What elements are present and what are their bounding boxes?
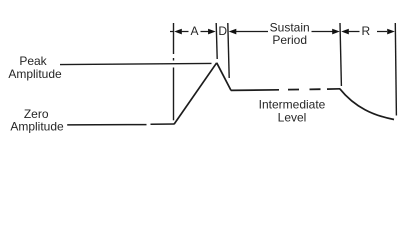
envelope sustain end segment bbox=[327, 88, 340, 90]
tick T5 release end bbox=[395, 23, 396, 116]
envelope sustain dashed segment bbox=[288, 88, 321, 90]
dimension A right line bbox=[201, 31, 209, 33]
svg-text:A: A bbox=[190, 24, 198, 38]
tick T2 attack end bbox=[216, 23, 217, 59]
svg-text:Peak: Peak bbox=[19, 54, 47, 68]
svg-text:Level: Level bbox=[278, 111, 307, 125]
zero leader right segment bbox=[151, 123, 175, 125]
dimension A left arrow bbox=[174, 29, 182, 35]
envelope decay ramp bbox=[217, 63, 231, 91]
label Zero Amplitude bbox=[10, 107, 64, 133]
dimension Sustain left line bbox=[236, 31, 269, 33]
svg-text:D: D bbox=[218, 24, 227, 38]
label Peak Amplitude bbox=[8, 54, 62, 81]
envelope sustain solid segment bbox=[231, 89, 279, 92]
dimension R left line bbox=[348, 31, 360, 33]
tick T4 sustain end bbox=[340, 23, 341, 86]
svg-text:Period: Period bbox=[272, 33, 307, 47]
tick T3 decay end bbox=[228, 23, 229, 78]
dimension A left line bbox=[181, 31, 189, 33]
dimension R right arrow bbox=[387, 29, 395, 35]
svg-text:Amplitude: Amplitude bbox=[10, 120, 64, 134]
dimension R right line bbox=[377, 31, 387, 33]
leader line zero amplitude bbox=[67, 124, 146, 126]
svg-text:Intermediate: Intermediate bbox=[259, 97, 326, 111]
dimension R left arrow bbox=[341, 29, 349, 35]
dimension Sustain right line bbox=[312, 31, 334, 33]
svg-text:Amplitude: Amplitude bbox=[8, 67, 62, 81]
leader line peak amplitude bbox=[60, 63, 212, 64]
dimension A stub bbox=[170, 31, 174, 33]
dimension A right arrow bbox=[208, 29, 216, 35]
label Intermediate Level bbox=[259, 97, 326, 124]
envelope release curve bbox=[340, 89, 394, 120]
dimension Sustain right arrow bbox=[332, 29, 340, 35]
svg-text:R: R bbox=[361, 24, 370, 38]
dimension Sustain left arrow bbox=[229, 29, 237, 35]
label Sustain Period bbox=[270, 21, 310, 47]
tick T1 attack start bbox=[173, 23, 175, 120]
envelope attack ramp bbox=[174, 63, 217, 124]
